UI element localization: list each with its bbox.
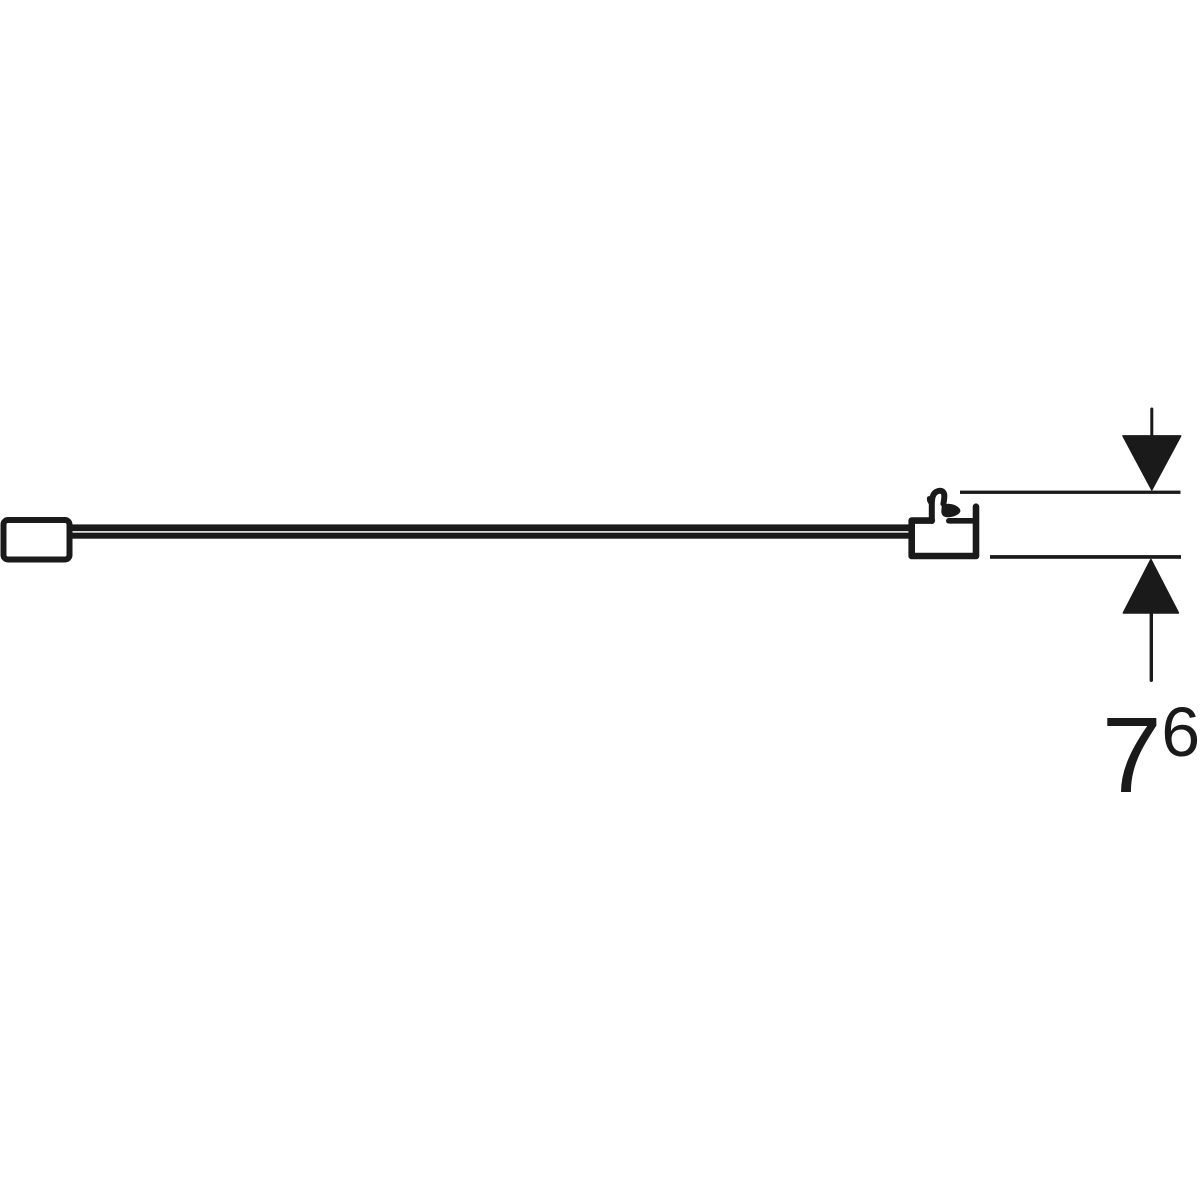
down arrow head <box>1123 436 1181 490</box>
seal strip top line <box>71 524 910 531</box>
clip prong stem and head <box>932 491 945 521</box>
seal strip bottom line <box>71 533 910 539</box>
left end cap rounded rectangle <box>4 520 70 560</box>
clip profile outline <box>912 507 976 556</box>
dimension line top <box>960 491 1181 494</box>
clip top-right ledge <box>949 518 976 524</box>
up arrow head <box>1123 560 1178 613</box>
dimension line bottom <box>990 555 1181 559</box>
clip barb <box>941 504 960 518</box>
up arrow stem <box>1150 613 1153 680</box>
svg-text:6: 6 <box>1161 693 1200 771</box>
svg-text:7: 7 <box>1102 694 1162 815</box>
down arrow stem <box>1150 409 1153 436</box>
